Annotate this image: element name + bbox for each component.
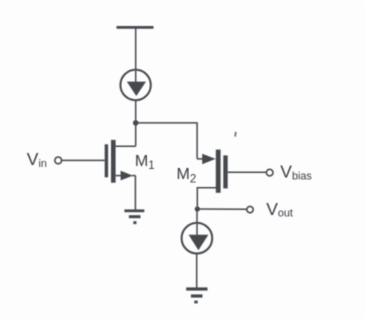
wire: Vin terminal to M1 gate bbox=[62, 159, 105, 161]
transistor M1 channel bar bbox=[111, 140, 116, 183]
wire: current source I1 to node A and M1 drain corner bbox=[135, 100, 137, 146]
terminal Vout bbox=[247, 206, 253, 212]
transistor M1 gate bar bbox=[105, 144, 108, 177]
wire: VDD rail to current source I1 bbox=[135, 27, 137, 70]
stray tick mark bbox=[234, 132, 237, 137]
transistor M2 gate bar bbox=[223, 155, 227, 188]
wire: current source I2 to ground bbox=[196, 254, 198, 289]
label Vin bbox=[27, 149, 47, 170]
wire: M1 source lead with arrow bbox=[116, 171, 136, 181]
label M1 bbox=[135, 153, 155, 172]
current source I2 bbox=[182, 223, 213, 254]
node A (junction dot) bbox=[133, 120, 139, 126]
current source I1 bbox=[120, 70, 150, 100]
terminal Vbias bbox=[266, 169, 273, 176]
power rail VDD bbox=[117, 26, 154, 29]
ground (below M1) bbox=[124, 209, 144, 224]
node B (junction dot) bbox=[195, 206, 200, 211]
wire: node B to Vout terminal bbox=[197, 208, 247, 210]
wire: M2 drain lead with arrow bbox=[197, 154, 216, 164]
ground (below I2) bbox=[186, 287, 207, 303]
label M2 bbox=[177, 166, 197, 185]
wire: M1 drain to node column bbox=[116, 145, 136, 147]
wire: M2 source (left then down to node B) bbox=[197, 188, 216, 209]
wire: node B to current source I2 bbox=[196, 209, 198, 223]
label Vbias bbox=[280, 162, 312, 183]
label Vout bbox=[266, 199, 293, 220]
wire: M2 gate to Vbias terminal bbox=[228, 171, 267, 173]
wire: node A to M2 drain (right then down) bbox=[136, 123, 197, 159]
terminal Vin bbox=[55, 157, 62, 164]
wire: M1 source down to ground bbox=[134, 176, 136, 210]
transistor M2 channel bar bbox=[216, 150, 221, 193]
